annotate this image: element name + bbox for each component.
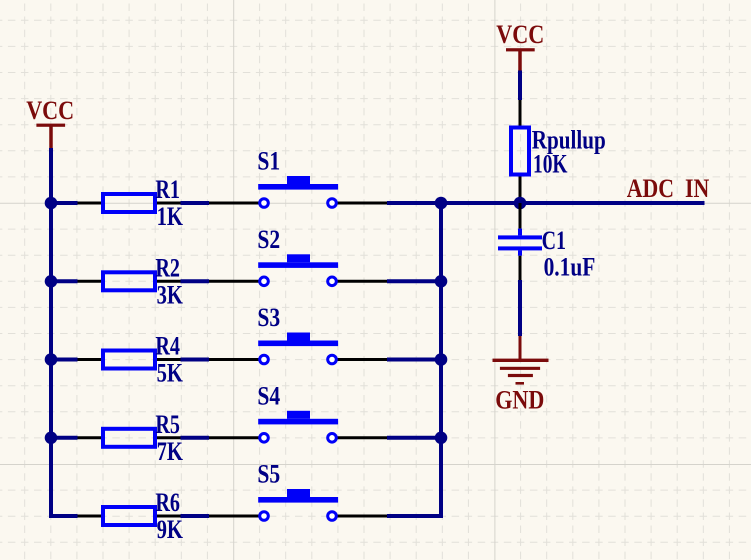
svg-text:VCC: VCC [496,20,544,49]
svg-text:R5: R5 [155,410,180,439]
svg-text:3K: 3K [157,280,184,309]
svg-text:1K: 1K [157,202,184,231]
svg-text:VCC: VCC [26,96,74,125]
svg-text:5K: 5K [157,359,184,388]
svg-text:R2: R2 [155,253,180,282]
svg-text:10K: 10K [533,149,568,178]
svg-text:S3: S3 [257,303,280,332]
svg-text:R4: R4 [155,332,180,361]
svg-text:S5: S5 [257,460,280,489]
svg-text:S1: S1 [257,147,280,176]
svg-text:R1: R1 [155,175,180,204]
svg-text:7K: 7K [157,437,184,466]
svg-text:S2: S2 [257,225,280,254]
svg-text:C1: C1 [542,226,566,255]
svg-text:9K: 9K [157,515,184,544]
svg-text:S4: S4 [257,381,280,410]
svg-text:ADC IN: ADC IN [627,174,710,203]
svg-text:GND: GND [495,385,544,414]
svg-text:0.1uF: 0.1uF [544,253,596,282]
svg-text:R6: R6 [155,488,180,517]
